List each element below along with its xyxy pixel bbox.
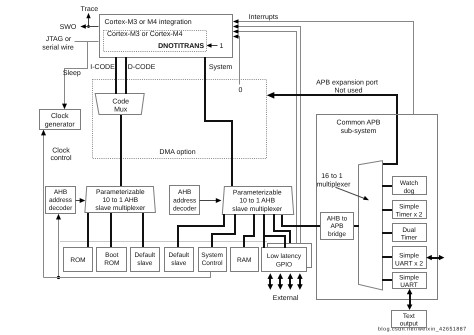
wire: sleep line [65,42,88,107]
svg-text:Simple: Simple [399,204,419,211]
wire: faint horizontal [60,241,267,243]
arrow: decoder2 to mux2 [200,198,222,203]
svg-text:Parameterizable: Parameterizable [233,189,282,196]
box: Common APB sub-system [317,115,438,300]
svg-text:RAM: RAM [237,257,251,264]
svg-text:Interrupts: Interrupts [249,14,279,21]
svg-text:multiplexer: multiplexer [317,181,352,189]
svg-text:DNOTITRANS: DNOTITRANS [158,43,204,50]
wire: mux to watch dog [382,185,392,187]
arrows: GPIO external x4 [268,273,303,290]
svg-text:JTAG or: JTAG or [46,36,72,43]
svg-text:APB expansion port: APB expansion port [316,78,378,86]
svg-text:UART: UART [400,282,418,289]
label: APB expansion port / Not used [316,78,378,94]
arrow: trace up [86,13,90,28]
svg-text:Clock: Clock [51,112,69,120]
mux: Parameterizable 10 to 1 AHB slave multiplexer 2 [222,187,293,215]
label: Clock control [50,146,71,162]
svg-text:sub-system: sub-system [341,127,377,135]
svg-text:slave: slave [137,260,153,267]
svg-text:dog: dog [404,188,415,195]
svg-text:decoder: decoder [49,205,73,212]
box: DMA option (dashed) [93,80,267,159]
svg-text:output: output [400,321,418,328]
arrow: UART x 2 external both ways [426,255,444,260]
box: AHB address decoder 2 [170,186,200,215]
svg-text:16 to 1: 16 to 1 [321,173,343,180]
svg-text:GPIO: GPIO [276,261,292,268]
svg-text:Not used: Not used [334,86,362,94]
wire: JTAG to cortex box [75,41,99,43]
svg-text:Dual: Dual [402,227,416,234]
wire: clock control up into clock generator [41,130,46,278]
box: Simple Timer x 2 [393,201,427,219]
wire: interrupt 1 from common APB [233,19,414,114]
svg-text:ROM: ROM [70,257,85,264]
box: Boot ROM [97,248,127,272]
svg-text:Sleep: Sleep [63,69,81,77]
box: Default slave 1 [131,248,160,272]
svg-text:slave: slave [171,260,187,267]
svg-text:1: 1 [220,43,224,50]
box: AHB to APB bridge [321,213,354,240]
svg-text:10 to 1 AHB: 10 to 1 AHB [239,198,275,205]
bus: mux2 to Default slave 2 [178,214,224,248]
bus: bridge output to 16:1 mux [354,225,359,227]
svg-text:Code: Code [112,98,129,106]
svg-text:Cortex-M3 or Cortex-M4: Cortex-M3 or Cortex-M4 [107,31,183,38]
svg-text:System: System [209,64,233,71]
svg-text:Text: Text [403,313,415,320]
box: Text output [392,311,427,328]
box: RAM [231,248,259,272]
wire: mux to simple timer [382,209,392,211]
svg-text:Boot: Boot [105,252,119,259]
svg-text:control: control [50,154,71,162]
svg-text:bridge: bridge [328,231,346,238]
box: System Control [199,248,227,272]
svg-text:Parameterizable: Parameterizable [96,189,145,196]
svg-text:Cortex-M3 or M4 integration: Cortex-M3 or M4 integration [105,18,192,26]
box: Watch dog [393,177,427,195]
wire: feed up into decoder1 [56,214,61,279]
svg-text:Timer: Timer [401,235,418,242]
svg-text:address: address [173,197,197,204]
wire: mux to simple uart x2 [382,256,392,258]
svg-text:SWO: SWO [60,24,77,31]
wire: interrupt 2 from GPIO [233,24,301,243]
svg-text:address: address [49,197,73,204]
svg-text:Watch: Watch [400,180,419,187]
bus: mux2 to RAM [244,214,254,248]
svg-text:D-CODE: D-CODE [128,64,156,71]
box: AHB address decoder 1 [46,187,76,214]
mux: Code Mux [95,94,144,115]
wire: system control feedback bottom [44,271,211,278]
label: JTAG or serial wire [42,36,74,51]
box: Simple UART x 2 [393,247,427,269]
svg-text:Control: Control [202,260,224,267]
box: Default slave 2 [165,248,194,272]
arrow: decoder1 to mux1 [76,198,86,203]
label: 16 to 1 multiplexer with pointer arrow [317,173,369,200]
bus: mux2 to System Control [212,214,235,248]
bus: mux1 to Default slave 1 [142,213,144,248]
wire: GPIO entries overdraw [263,243,265,248]
svg-text:AHB: AHB [178,189,191,196]
svg-text:10 to 1 AHB: 10 to 1 AHB [102,197,138,204]
svg-text:I-CODE: I-CODE [90,64,115,71]
wire: mux to dual timer [382,232,392,234]
box: Cortex-M3 or Cortex-M4 (dashed) [104,31,207,52]
svg-text:Mux: Mux [114,107,128,114]
box: Clock generator [40,110,81,130]
svg-text:Timer x 2: Timer x 2 [396,211,423,218]
arrow: SWO left [60,24,99,31]
svg-text:UART x 2: UART x 2 [395,261,423,268]
svg-text:generator: generator [45,122,76,129]
bus: AHB mux2 to bridge input [282,214,320,226]
svg-text:AHB: AHB [54,189,67,196]
svg-text:Simple: Simple [399,253,419,260]
svg-text:slave multiplexer: slave multiplexer [95,205,146,212]
svg-text:Default: Default [168,252,189,259]
wire: interrupt 4 from DMA [233,34,240,84]
bus: mux2 to GPIO port B [274,214,290,244]
bus: mux2 to GPIO port A [263,214,265,248]
svg-text:slave multiplexer: slave multiplexer [232,206,283,213]
box: Dual Timer [393,224,427,242]
box: ROM [64,248,93,272]
box: Low latency GPIO [262,248,307,272]
svg-text:Simple: Simple [399,274,419,281]
bus: APB expansion thick line with left arrow into DMA [267,92,397,164]
svg-text:ROM: ROM [104,260,119,267]
svg-text:Trace: Trace [80,6,98,13]
arrow: simple UART to text output both ways [407,289,413,310]
svg-text:Default: Default [134,252,155,259]
svg-text:Low latency: Low latency [267,253,302,260]
wire: mux to simple uart [382,279,392,281]
bus: code mux output to AHB mux 1 [120,115,122,187]
mux: Parameterizable 10 to 1 AHB slave multiplexer 1 [85,187,155,213]
bus: D-CODE [125,57,127,94]
svg-text:serial wire: serial wire [42,43,74,51]
arrowhead: sleep down [62,104,67,110]
svg-text:Clock: Clock [52,146,70,154]
svg-text:0: 0 [239,87,243,94]
box: Cortex-M3 or M4 integration [100,15,233,58]
arrow: DNOTITRANS tie-off 1 [207,43,224,50]
bus: System [205,57,232,187]
box: Low latency GPIO (shadow) [268,244,312,268]
mux: 16 to 1 multiplexer [359,161,383,290]
svg-text:System: System [201,252,223,259]
svg-text:AHB to: AHB to [327,216,348,223]
bus: mux1 to ROM [87,213,89,248]
bus: mux1 to Boot ROM [110,213,112,248]
svg-text:decoder: decoder [173,205,197,212]
svg-text:DMA option: DMA option [159,148,195,156]
wire: interrupt 3 from GPIO [233,29,297,243]
bus: GPIO branch [264,236,285,248]
svg-text:Common APB: Common APB [337,120,381,127]
box: Simple UART [393,273,427,290]
svg-text:APB: APB [330,223,343,230]
bus: I-CODE [115,57,117,94]
svg-text:External: External [273,294,299,302]
